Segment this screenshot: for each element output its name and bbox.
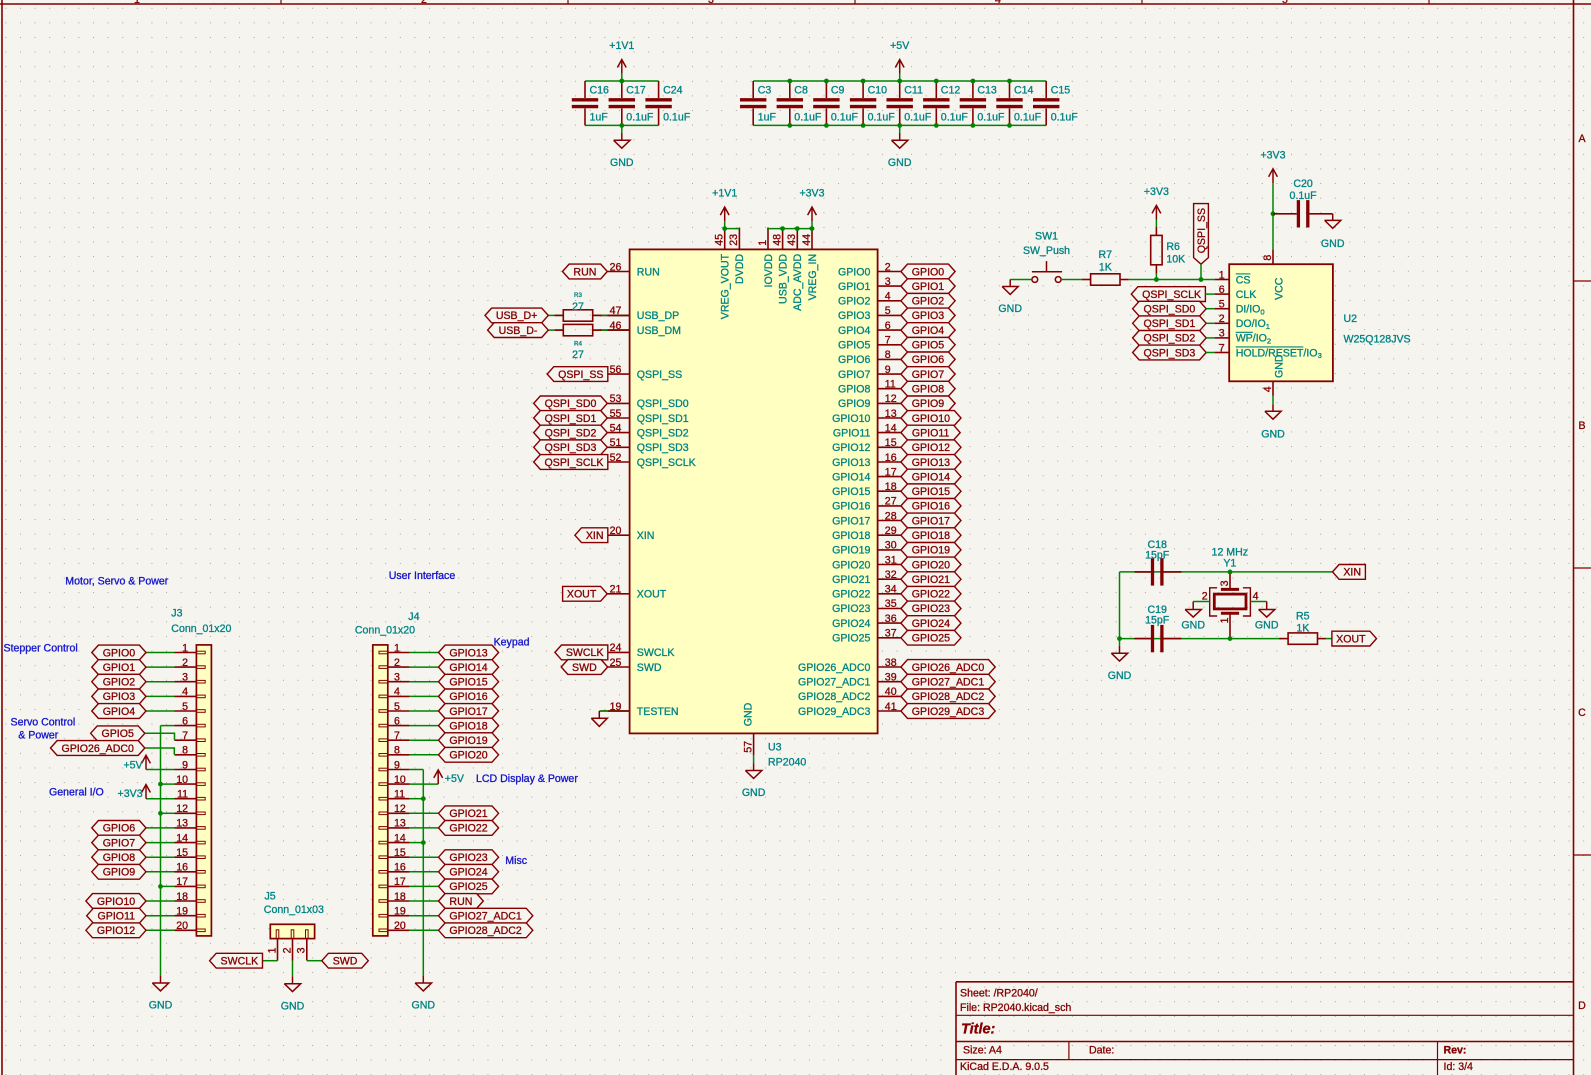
svg-text:GPIO11: GPIO11 [98, 911, 136, 923]
svg-text:+3V3: +3V3 [118, 788, 143, 800]
svg-text:GPIO5: GPIO5 [102, 728, 134, 740]
svg-text:Servo Control: Servo Control [11, 717, 76, 729]
svg-text:GPIO24: GPIO24 [912, 618, 950, 630]
ground GND (Y1 pin4) [1259, 610, 1275, 618]
wire GPIO26_ADC0 to J3 pin 8 (jog) [145, 748, 175, 755]
wire J4 pin 12 to label [410, 812, 439, 814]
junction cap bank 2 top C10 [861, 79, 866, 84]
svg-text:GPIO5: GPIO5 [912, 340, 944, 352]
svg-text:26: 26 [610, 261, 622, 273]
U3 pin 54 QSPI_SD2 [600, 432, 629, 434]
wire USB_D- to R4 [548, 329, 563, 331]
connector J4 Conn_01x20 body [373, 645, 388, 936]
svg-text:+3V3: +3V3 [1260, 149, 1285, 161]
wire J4 pin 16 to label [410, 871, 439, 873]
svg-text:43: 43 [786, 234, 798, 246]
svg-text:4: 4 [394, 686, 400, 698]
ground GND (U3) [753, 763, 755, 770]
wire J3 pin 5 to label [146, 710, 175, 712]
ground GND (J4) [422, 976, 424, 983]
svg-text:GPIO5: GPIO5 [838, 340, 870, 352]
svg-text:20: 20 [394, 920, 406, 932]
svg-text:1: 1 [266, 947, 278, 953]
wire J3 pin 15 to label [146, 856, 175, 858]
wire R3 to USB_DP [593, 314, 630, 316]
svg-text:21: 21 [610, 584, 622, 596]
svg-text:3: 3 [182, 672, 188, 684]
svg-text:18: 18 [394, 891, 406, 903]
svg-text:44: 44 [801, 234, 813, 246]
U3 pin 9 GPIO7 [878, 373, 901, 375]
svg-text:0: 0 [1260, 307, 1264, 316]
U3 pin 36 GPIO24 [878, 622, 901, 624]
svg-text:20: 20 [610, 525, 622, 537]
U3 pin 45 VREG_VOUT (top) [724, 228, 726, 250]
svg-text:QSPI_SS: QSPI_SS [558, 369, 603, 381]
svg-text:GPIO21: GPIO21 [912, 574, 950, 586]
J3 pin 9 [175, 769, 197, 771]
svg-text:DVDD: DVDD [734, 254, 746, 284]
junction XOUT at crystal [1228, 636, 1233, 641]
svg-text:5: 5 [1282, 0, 1288, 6]
svg-text:GPIO1: GPIO1 [912, 281, 944, 293]
svg-text:0.1uF: 0.1uF [904, 112, 932, 124]
svg-text:1uF: 1uF [758, 112, 777, 124]
svg-text:55: 55 [610, 408, 622, 420]
global label GPIO28_ADC2 (J4) [439, 923, 533, 938]
U3 pin 4 GPIO2 [878, 300, 901, 302]
junction cap bank 2 top C8 [787, 79, 792, 84]
U2 pin 1 CS [1215, 279, 1230, 281]
svg-text:GPIO22: GPIO22 [912, 589, 950, 601]
U3 pin 26 RUN [600, 271, 629, 273]
wire J3 pin 2 to label [146, 666, 175, 668]
wire J3 pin 1 to label [146, 652, 175, 654]
svg-text:10K: 10K [1166, 254, 1185, 266]
power +3V3 (U2 VCC) [1272, 170, 1274, 183]
svg-text:ADC_AVDD: ADC_AVDD [792, 254, 804, 311]
svg-text:54: 54 [610, 422, 622, 434]
svg-text:GPIO10: GPIO10 [912, 413, 950, 425]
wire U3 GND stub [753, 755, 755, 763]
U3 pin 35 GPIO23 [878, 608, 901, 610]
capacitor C12 [935, 81, 937, 98]
svg-text:SWD: SWD [572, 662, 597, 674]
svg-text:12: 12 [885, 393, 897, 405]
global label GPIO9 (J3) [92, 864, 146, 879]
J4 pin 9 [388, 769, 410, 771]
svg-text:QSPI_SD1: QSPI_SD1 [637, 413, 689, 425]
ic U3 RP2040 body [630, 249, 878, 733]
svg-text:1: 1 [1266, 322, 1270, 331]
global label GPIO2 (J3) [92, 674, 146, 689]
global label RUN (J4) [439, 894, 484, 909]
svg-text:J4: J4 [408, 611, 419, 623]
svg-text:GPIO7: GPIO7 [838, 369, 870, 381]
svg-text:7: 7 [394, 730, 400, 742]
svg-text:QSPI_SD3: QSPI_SD3 [637, 442, 689, 454]
global label GPIO3 (right of U3) [901, 308, 955, 323]
wire J4 pin 8 to label [410, 754, 439, 756]
global label GPIO4 (right of U3) [901, 323, 955, 338]
svg-text:GPIO20: GPIO20 [912, 559, 950, 571]
global label GPIO26_ADC0 (right of U3) [901, 660, 995, 675]
svg-text:QSPI_SD3: QSPI_SD3 [1143, 347, 1195, 359]
global label GPIO17 (right of U3) [901, 513, 961, 528]
global label GPIO20 (J4) [439, 747, 499, 762]
svg-text:VREG_VOUT: VREG_VOUT [720, 253, 732, 319]
svg-text:2: 2 [421, 0, 427, 6]
J4 pin 18 [388, 900, 410, 902]
svg-text:DO/IO: DO/IO [1236, 318, 1266, 330]
svg-text:GPIO13: GPIO13 [449, 647, 487, 659]
svg-text:C20: C20 [1293, 178, 1313, 190]
J5 pin 1 [277, 939, 279, 961]
capacitor C16 [584, 81, 586, 98]
U3 pin 28 GPIO17 [878, 520, 901, 522]
svg-text:56: 56 [610, 364, 622, 376]
svg-text:5: 5 [885, 305, 891, 317]
capacitor C11 [899, 81, 901, 98]
global label GPIO26_ADC0 (J3) [51, 741, 145, 756]
global label QSPI_SD1 (U2) [1133, 316, 1207, 331]
svg-text:27: 27 [885, 496, 897, 508]
wire R6 top to +3V3 [1155, 220, 1157, 227]
svg-text:GPIO6: GPIO6 [838, 354, 870, 366]
wire QSPI_SD2 to U2 [1206, 337, 1214, 339]
svg-text:GPIO17: GPIO17 [912, 515, 950, 527]
global label GPIO10 (J3) [86, 894, 146, 909]
connector J3 Conn_01x20 body [196, 645, 211, 936]
global label SWD (J5) [322, 953, 369, 968]
svg-text:GPIO28_ADC2: GPIO28_ADC2 [798, 691, 871, 703]
J3 pin 2 [175, 666, 197, 668]
U3 pin 40 GPIO28_ADC2 [878, 695, 901, 697]
svg-text:+1V1: +1V1 [712, 188, 737, 200]
wire crystal left vertical [1119, 572, 1121, 639]
svg-text:2: 2 [182, 657, 188, 669]
svg-text:GND: GND [1261, 428, 1285, 440]
svg-text:GPIO4: GPIO4 [912, 325, 944, 337]
global label GPIO8 (J3) [92, 850, 146, 865]
power +1V1 (cap bank) [621, 74, 623, 81]
junction C20 tap [1271, 211, 1276, 216]
wire QSPI_SD0 to U2 [1206, 308, 1214, 310]
U3 pin 29 GPIO18 [878, 534, 901, 536]
svg-text:VCC: VCC [1273, 277, 1285, 300]
svg-text:Motor, Servo & Power: Motor, Servo & Power [65, 576, 169, 588]
resistor R5 1K [1288, 633, 1317, 644]
svg-text:3: 3 [296, 947, 308, 953]
svg-text:GPIO25: GPIO25 [449, 881, 487, 893]
svg-text:GPIO1: GPIO1 [838, 281, 870, 293]
svg-text:USB_DM: USB_DM [637, 325, 681, 337]
resistor R6 10K [1151, 235, 1162, 264]
svg-text:0.1uF: 0.1uF [663, 112, 691, 124]
svg-text:QSPI_SD3: QSPI_SD3 [545, 442, 597, 454]
wire R5 to XOUT label [1326, 638, 1332, 640]
svg-text:GPIO19: GPIO19 [832, 545, 870, 557]
svg-text:GPIO25: GPIO25 [832, 633, 870, 645]
svg-text:QSPI_SD2: QSPI_SD2 [637, 427, 689, 439]
wire +3V3 to IOVDD USB_VDD ADC_AVDD VREG_IN [768, 228, 812, 230]
global label GPIO22 (right of U3) [901, 586, 961, 601]
svg-text:23: 23 [728, 234, 740, 246]
svg-text:GPIO27_ADC1: GPIO27_ADC1 [449, 911, 522, 923]
svg-text:GPIO1: GPIO1 [103, 662, 135, 674]
U3 pin 1 IOVDD (top) [767, 228, 769, 250]
svg-text:2: 2 [394, 657, 400, 669]
wire J4 pin 5 to label [410, 710, 439, 712]
svg-text:38: 38 [885, 657, 897, 669]
U3 pin 2 GPIO0 [878, 271, 901, 273]
svg-text:2: 2 [1202, 591, 1208, 603]
J3 pin 3 [175, 681, 197, 683]
U3 pin 51 QSPI_SD3 [600, 446, 629, 448]
svg-text:C13: C13 [977, 84, 997, 96]
U3 pin 32 GPIO21 [878, 578, 901, 580]
svg-text:37: 37 [885, 628, 897, 640]
svg-text:SWD: SWD [637, 662, 662, 674]
global label QSPI_SCLK (U3) [534, 455, 608, 470]
U2 pin 4 GND (bottom) [1272, 381, 1274, 396]
svg-text:C17: C17 [626, 84, 646, 96]
svg-text:GPIO0: GPIO0 [838, 266, 870, 278]
junction cap bank 2 bottom C14 [1007, 123, 1012, 128]
global label USB_D+ [485, 308, 548, 323]
ground GND (U2) [1272, 404, 1274, 411]
svg-text:R3: R3 [574, 292, 582, 299]
svg-text:VREG_IN: VREG_IN [807, 254, 819, 301]
wire QSPI_SD1 to U2 [1206, 322, 1214, 324]
svg-text:+3V3: +3V3 [1144, 186, 1169, 198]
svg-text:GPIO12: GPIO12 [97, 925, 135, 937]
global label GPIO29_ADC3 (right of U3) [901, 704, 995, 719]
ground GND (cap bank 1) [621, 125, 623, 133]
svg-text:GPIO16: GPIO16 [912, 501, 950, 513]
U3 pin 21 XOUT [600, 593, 629, 595]
svg-text:GND: GND [1255, 620, 1279, 632]
global label GPIO21 (J4) [439, 806, 499, 821]
J5 pin 3 [306, 939, 308, 961]
svg-text:GPIO27_ADC1: GPIO27_ADC1 [912, 677, 985, 689]
global label GPIO16 (J4) [439, 689, 499, 704]
global label QSPI_SD3 (U2) [1133, 345, 1207, 360]
J4 pin 7 [388, 739, 410, 741]
U3 pin 13 GPIO10 [878, 417, 901, 419]
global label GPIO12 (J3) [86, 923, 146, 938]
svg-text:3: 3 [708, 0, 714, 6]
svg-text:18: 18 [176, 891, 188, 903]
U3 pin 15 GPIO12 [878, 446, 901, 448]
junction cap bank 2 bottom C12 [934, 123, 939, 128]
wire J4 pin 19 to label [410, 915, 439, 917]
junction J4 pin 14 [421, 840, 426, 845]
global label GPIO6 (right of U3) [901, 352, 955, 367]
U3 pin 52 QSPI_SCLK [600, 461, 629, 463]
global label GPIO2 (right of U3) [901, 293, 955, 308]
global label GPIO25 (right of U3) [901, 630, 961, 645]
global label GPIO4 (J3) [92, 704, 146, 719]
junction cap bank 2 top C9 [824, 79, 829, 84]
svg-text:1uF: 1uF [590, 112, 609, 124]
wire +1V1 cap bank top [585, 80, 659, 82]
svg-text:6: 6 [182, 715, 188, 727]
U3 pin 41 GPIO29_ADC3 [878, 710, 901, 712]
svg-text:R4: R4 [574, 341, 582, 348]
svg-text:1K: 1K [1099, 261, 1112, 273]
svg-text:2: 2 [281, 947, 293, 953]
global label GPIO9 (right of U3) [901, 396, 955, 411]
svg-text:QSPI_SS: QSPI_SS [1196, 208, 1208, 253]
U2 pin 3 WP/IO2 [1215, 337, 1230, 339]
svg-text:Conn_01x03: Conn_01x03 [264, 904, 324, 916]
svg-text:A: A [1578, 133, 1586, 145]
wire SW1 to R7 [1061, 279, 1082, 281]
global label GPIO17 (J4) [439, 704, 499, 719]
svg-text:32: 32 [885, 569, 897, 581]
U2 pin 7 HOLD/RESET/IO3 [1215, 352, 1230, 354]
J5 pin 2 [292, 939, 294, 961]
junction cap bank 2 bottom C8 [787, 123, 792, 128]
global label GPIO11 (right of U3) [901, 425, 960, 440]
svg-text:6: 6 [1219, 284, 1225, 296]
svg-text:13: 13 [176, 818, 188, 830]
U3 pin 12 GPIO9 [878, 402, 901, 404]
svg-text:GPIO21: GPIO21 [449, 808, 487, 820]
U3 pin 43 ADC_AVDD (top) [796, 228, 798, 250]
svg-text:DI/IO: DI/IO [1236, 304, 1261, 316]
svg-text:C10: C10 [868, 84, 888, 96]
svg-text:0.1uF: 0.1uF [941, 112, 969, 124]
svg-text:27: 27 [572, 349, 584, 361]
global label QSPI_SD2 (U3) [534, 425, 608, 440]
junction J4 pin 11 [421, 796, 426, 801]
capacitor C3 [752, 81, 754, 98]
svg-text:GPIO7: GPIO7 [912, 369, 944, 381]
svg-text:C12: C12 [941, 84, 961, 96]
wire J4 pin 18 to label [410, 900, 439, 902]
svg-text:7: 7 [182, 730, 188, 742]
J3 pin 6 [175, 725, 197, 727]
svg-text:14: 14 [394, 832, 406, 844]
svg-text:General I/O: General I/O [49, 787, 104, 799]
global label GPIO0 (right of U3) [901, 264, 955, 279]
svg-text:19: 19 [394, 906, 406, 918]
svg-text:39: 39 [885, 672, 897, 684]
svg-text:2: 2 [1267, 337, 1271, 346]
svg-text:C24: C24 [663, 84, 683, 96]
svg-text:4: 4 [1253, 591, 1259, 603]
wire J3 pin 3 to label [146, 681, 175, 683]
svg-text:D: D [1578, 1000, 1586, 1012]
svg-text:GND: GND [1273, 354, 1285, 378]
J4 pin 2 [388, 666, 410, 668]
svg-text:SWCLK: SWCLK [221, 956, 259, 968]
svg-text:SW1: SW1 [1035, 230, 1058, 242]
J4 pin 5 [388, 710, 410, 712]
svg-text:USB_VDD: USB_VDD [777, 254, 789, 304]
svg-text:& Power: & Power [18, 729, 59, 741]
svg-text:Rev:: Rev: [1444, 1045, 1467, 1057]
wire J4 pin 17 to label [410, 885, 439, 887]
svg-text:RUN: RUN [637, 266, 660, 278]
svg-text:GPIO29_ADC3: GPIO29_ADC3 [798, 706, 871, 718]
J3 pin 4 [175, 695, 197, 697]
svg-text:Keypad: Keypad [494, 637, 530, 649]
svg-text:25: 25 [610, 657, 622, 669]
svg-text:GPIO10: GPIO10 [832, 413, 870, 425]
wire J4 pin 20 to label [410, 929, 439, 931]
svg-text:34: 34 [885, 584, 897, 596]
svg-text:45: 45 [714, 234, 726, 246]
svg-text:GPIO6: GPIO6 [103, 823, 135, 835]
global label QSPI_SCLK (U2) [1131, 287, 1205, 302]
svg-text:GND: GND [888, 157, 912, 169]
svg-text:GPIO24: GPIO24 [832, 618, 870, 630]
svg-text:GPIO4: GPIO4 [103, 706, 135, 718]
junction J3 pin 17 [158, 884, 163, 889]
svg-text:20: 20 [176, 920, 188, 932]
svg-text:1: 1 [1219, 617, 1231, 623]
junction cap bank 2 top C11 [897, 79, 902, 84]
svg-text:QSPI_SD2: QSPI_SD2 [545, 427, 597, 439]
global label SWCLK (J5) [210, 953, 263, 968]
global label GPIO15 (right of U3) [901, 484, 961, 499]
wire +1V1 to VREG_VOUT and DVDD [725, 228, 740, 230]
J3 pin 15 [175, 856, 197, 858]
svg-text:RP2040: RP2040 [768, 756, 806, 768]
junction VREG_VOUT [722, 226, 727, 231]
svg-text:QSPI_SCLK: QSPI_SCLK [545, 457, 604, 469]
svg-text:Y1: Y1 [1223, 557, 1236, 569]
junction cap bank 2 top C12 [934, 79, 939, 84]
svg-text:C8: C8 [794, 84, 808, 96]
U2 pin 2 DO/IO1 [1215, 322, 1230, 324]
global label GPIO19 (J4) [439, 733, 499, 748]
svg-text:16: 16 [394, 862, 406, 874]
J3 pin 17 [175, 885, 197, 887]
svg-text:Conn_01x20: Conn_01x20 [171, 623, 231, 635]
svg-text:GPIO12: GPIO12 [912, 442, 950, 454]
svg-text:HOLD/RESET: HOLD/RESET [1236, 347, 1304, 359]
capacitor C15 [1045, 81, 1047, 98]
svg-text:6: 6 [885, 320, 891, 332]
svg-text:0.1uF: 0.1uF [1051, 112, 1079, 124]
svg-text:Sheet: /RP2040/: Sheet: /RP2040/ [960, 988, 1038, 1000]
svg-text:51: 51 [610, 437, 622, 449]
junction XIN at crystal [1228, 570, 1233, 575]
svg-text:12: 12 [176, 803, 188, 815]
junction cap bank 2 top C14 [1007, 79, 1012, 84]
svg-text:14: 14 [176, 832, 188, 844]
svg-text:GND: GND [1321, 238, 1345, 250]
capacitor C18 15pF [1135, 571, 1151, 573]
svg-text:53: 53 [610, 393, 622, 405]
ground GND (cap bank 2) [899, 125, 901, 133]
power +3V3 (J3) [145, 786, 147, 799]
svg-text:+5V: +5V [445, 773, 465, 785]
capacitor C9 [825, 81, 827, 98]
junction J3 pin 12 [158, 811, 163, 816]
svg-text:C16: C16 [590, 84, 610, 96]
svg-text:GND: GND [412, 1000, 436, 1012]
svg-text:27: 27 [572, 301, 584, 313]
wire J5 pin 1 to SWCLK [263, 960, 278, 962]
svg-text:3: 3 [394, 672, 400, 684]
svg-text:11: 11 [885, 379, 896, 391]
global label GPIO16 (right of U3) [901, 499, 961, 514]
